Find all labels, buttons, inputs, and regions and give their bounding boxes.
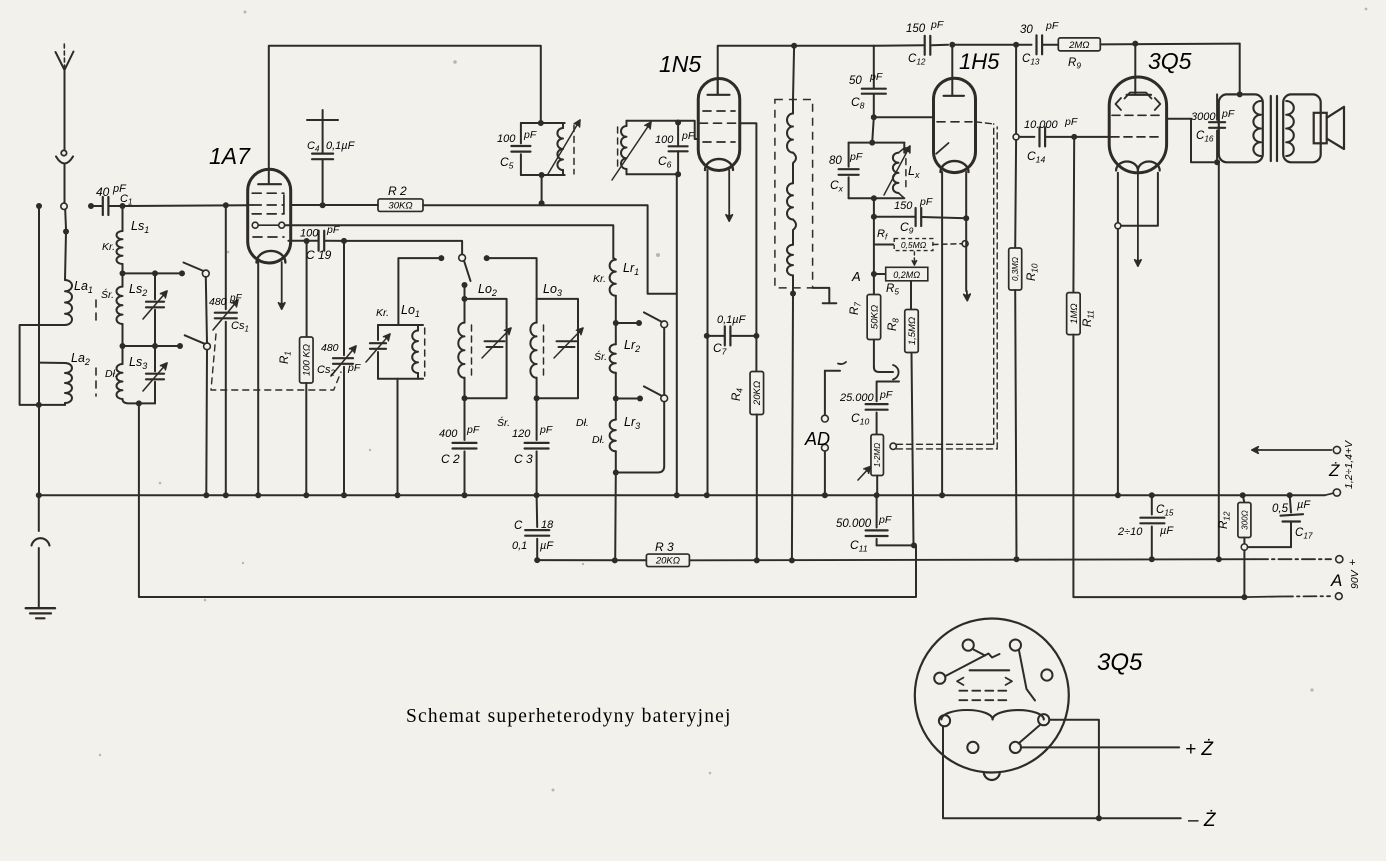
svg-text:Ls2: Ls2 [129,282,147,298]
svg-text:Dł.: Dł. [105,368,118,380]
potentiometer 1-2M [858,435,896,496]
svg-text:Rf: Rf [877,228,888,241]
3Q5 filament humps [1116,161,1160,170]
resistor Rf 0.5M [874,217,933,295]
AVC dashed pair [897,122,998,449]
svg-text:25.000: 25.000 [839,392,875,404]
1A7 grids [248,193,284,214]
svg-text:Lr1: Lr1 [623,261,639,277]
svg-text:3000: 3000 [1191,111,1216,123]
svg-text:Ż: Ż [1328,461,1340,480]
trimmer Cs2 480pF [317,241,361,495]
svg-text:90V: 90V [1349,569,1361,589]
svg-text:C9: C9 [900,220,914,236]
svg-text:R 2: R 2 [388,184,407,198]
3Q5 beam plates [1116,93,1161,111]
coil La2 [39,351,90,405]
IF transformer winding [787,46,796,297]
1H5 cathode leg [941,172,943,495]
trimmer Cs1 480pF [209,205,249,495]
capacitor C1 40pF [88,183,132,215]
svg-text:100: 100 [300,228,319,240]
svg-text:pF: pF [326,224,340,236]
svg-text:Lo1: Lo1 [401,303,420,319]
antenna switch [61,203,69,234]
wire La1 bottom bracket [20,325,65,405]
svg-text:R5: R5 [886,283,899,297]
node A [851,269,877,284]
antenna coupling connector [56,150,73,203]
wire antenna switch to La1 [65,232,66,281]
svg-text:2÷10: 2÷10 [1117,526,1143,538]
svg-text:pF: pF [849,151,863,163]
socket wire minus Z [943,720,1217,831]
svg-text:300Ω: 300Ω [1240,510,1249,529]
svg-text:Lo3: Lo3 [543,282,562,298]
wire R11 to bias line [1073,335,1244,597]
capacitor C2 400pF [439,398,480,495]
svg-text:R4: R4 [731,388,745,401]
Lr switch common [616,328,664,473]
svg-text:C5: C5 [500,155,514,171]
resistor R1 100K [279,241,313,495]
IF transformer shield box [775,100,813,288]
svg-text:20KΩ: 20KΩ [655,556,680,567]
svg-text:2MΩ: 2MΩ [1068,40,1089,51]
svg-text:Śr.: Śr. [594,350,607,363]
wave switch 2 [185,335,211,349]
node on earth branch [36,203,42,209]
svg-text:30: 30 [1020,24,1033,36]
1H5 diode plate [936,143,948,154]
svg-text:150: 150 [906,23,926,35]
coil Ls2 [101,273,147,346]
svg-text:pF: pF [869,71,883,83]
svg-text:1H5: 1H5 [959,49,1000,74]
Lr junction 2 [613,396,643,402]
svg-text:pF: pF [930,19,944,31]
resistor R10 0.3M [1009,140,1040,562]
wave switch 1 [184,263,210,277]
svg-text:Schemat superheterodyny batery: Schemat superheterodyny bateryjnej [406,706,732,727]
wire 1A7 plate to top rail [269,46,541,170]
bias line to terminal [1241,593,1342,600]
svg-text:20KΩ: 20KΩ [752,381,763,406]
svg-text:1,2÷1,4+V: 1,2÷1,4+V [1343,440,1355,489]
coil Ls1 [102,206,149,273]
svg-text:Lr3: Lr3 [624,415,640,431]
1N5 filament arrow [726,170,732,221]
svg-text:30KΩ: 30KΩ [388,201,412,212]
svg-text:100: 100 [497,133,516,145]
resistor R4 20K [731,336,764,564]
1A7 lower grid dash [253,236,284,238]
3Q5 left leg [1115,173,1121,495]
svg-text:pF: pF [539,424,553,436]
wire 1N5 screen down [739,123,756,336]
svg-text:Śr.: Śr. [101,288,114,301]
capacitor C13 30pF [1020,20,1059,67]
svg-text:pF: pF [229,293,243,304]
svg-text:C16: C16 [1196,130,1214,144]
svg-text:AD: AD [804,429,830,449]
wire 1A7 screen row to Lr1 [285,225,614,258]
svg-text:0,1: 0,1 [512,540,527,552]
Lr switch 1 [644,312,668,327]
tube 3Q5 [1109,48,1191,173]
node IF feed [791,43,797,49]
svg-text:Kr.: Kr. [376,307,389,319]
transformer core [1271,96,1277,161]
tube 1A7 [209,143,291,263]
tank Cx 80pF with Lx [829,117,920,219]
svg-text:10.000: 10.000 [1024,119,1059,131]
1A7 cathode leg [257,262,259,495]
socket internal structure [941,650,1043,744]
resistor R7 50K [849,295,881,340]
svg-text:C11: C11 [850,538,868,554]
spark gap [32,495,50,608]
capacitor C4 0.1uF [307,110,356,208]
transformer bottom node [1214,159,1222,562]
svg-text:C1: C1 [120,193,132,206]
output transformer secondary [1283,94,1321,162]
socket 3Q5 outline [915,619,1069,781]
speaker [1314,107,1344,149]
Lr junction 1 [613,320,642,326]
svg-text:C: C [514,520,523,532]
trimmer across Ls2 [143,273,167,346]
svg-text:3Q5: 3Q5 [1097,649,1143,676]
svg-text:R11: R11 [1082,310,1096,327]
svg-text:3Q5: 3Q5 [1148,48,1192,74]
1A7 filament arrow [279,262,285,309]
svg-text:R12: R12 [1218,511,1232,529]
svg-text:Ls3: Ls3 [129,355,147,371]
capacitor C16 3000pF [1191,94,1235,162]
svg-text:pF: pF [1221,108,1235,120]
svg-text:pF: pF [523,129,537,141]
terminal Z label [1328,440,1355,489]
svg-text:Cx: Cx [830,178,844,194]
bus terminal Z [1325,489,1341,496]
IF tank C5 coil [497,120,580,206]
socket wire plus Z [1021,739,1214,760]
capacitor C19 100pF [288,224,344,262]
capacitor C12 150pF [874,19,948,67]
svg-text:1N5: 1N5 [659,51,701,77]
svg-text:Lx: Lx [908,164,920,180]
resistor R5 0.2M [874,252,928,297]
svg-text:Kr.: Kr. [102,241,115,253]
svg-text:1-2MΩ: 1-2MΩ [873,443,882,467]
1N5 grids [700,111,740,142]
oscillator coil Lo3 [530,282,588,429]
wire C8 to 1H5 [874,116,934,118]
svg-text:pF: pF [466,424,480,436]
3Q5 grid dashes [1109,115,1163,137]
capacitor C10 25000pF [839,382,899,435]
antenna [56,44,74,150]
trimmer across Ls3 [139,346,167,403]
coil Lr2 [594,323,640,399]
svg-text:480: 480 [209,296,227,308]
svg-text:R7: R7 [849,302,863,315]
gang dashed link [211,334,341,390]
wire C13 down to C14 [1013,45,1019,140]
svg-text:50.000: 50.000 [836,518,872,530]
junction Cs2 top [341,238,347,244]
svg-text:100: 100 [655,134,674,146]
switch common wire [206,277,207,495]
svg-text:1,5MΩ: 1,5MΩ [907,317,918,345]
capacitor C18 0.1uF [512,495,554,563]
svg-text:pF: pF [919,196,933,208]
wire C6 to 1N5 grid [678,121,699,139]
AD input jack [804,362,846,495]
wire R7 to pickup jack [874,340,899,380]
svg-text:0,1µF: 0,1µF [326,140,356,152]
svg-text:pF: pF [879,389,893,401]
capacitor C15 2-10uF [1117,495,1174,562]
junction row 1 [120,270,186,276]
svg-text:C10: C10 [851,411,869,427]
wire R2 to C6 branch [423,205,677,294]
svg-text:µF: µF [540,540,554,552]
svg-text:0,2MΩ: 0,2MΩ [893,270,920,280]
3Q5 right leg [1121,173,1158,226]
coil La1 [65,279,93,325]
svg-text:18: 18 [541,519,554,531]
svg-text:+ Ż: + Ż [1185,739,1214,760]
svg-text:pF: pF [878,514,892,526]
svg-text:C6: C6 [658,154,672,170]
svg-text:Dł.: Dł. [576,417,589,429]
capacitor C9 150pF [874,196,969,236]
wire osc grid to wave switch [344,241,462,254]
1H5 grid dash [937,121,972,123]
3Q5 center leg arrow [1135,173,1141,266]
svg-text:R9: R9 [1068,57,1081,71]
svg-text:0,1µF: 0,1µF [717,314,747,326]
svg-text:µF: µF [1160,525,1174,537]
svg-text:0,5MΩ: 0,5MΩ [901,240,927,250]
svg-text:C 19: C 19 [306,248,332,262]
svg-text:Śr.: Śr. [497,416,510,429]
svg-text:pF: pF [681,130,695,142]
wire C6 down to bus [676,174,678,495]
svg-text:1A7: 1A7 [209,143,251,169]
svg-text:C15: C15 [1156,504,1174,518]
oscillator coil Lo2 [458,282,511,429]
core dash La [95,300,97,396]
junction R1 top [304,238,310,244]
svg-text:R10: R10 [1026,263,1040,281]
resistor R11 1M [1067,137,1096,335]
svg-text:A: A [851,269,861,284]
dashed Rf to diode line [933,241,968,247]
capacitor C3 120pF [512,398,553,495]
terminal A label [1330,557,1361,590]
IF shield ground stub [813,288,837,303]
3Q5 plate wire [1167,119,1214,163]
svg-text:R8: R8 [887,318,901,331]
svg-text:C12: C12 [908,53,926,67]
1A7 bottom dome [257,251,286,263]
svg-text:Cs2: Cs2 [317,364,335,377]
coil Ls3 [105,346,147,403]
1N5 bottom dome [705,159,733,170]
svg-text:C14: C14 [1027,149,1045,165]
capacitor C14 10000pF [1019,116,1109,165]
svg-text:Lr2: Lr2 [624,338,640,354]
svg-text:µF: µF [1297,499,1311,511]
1H5 top node [944,42,964,96]
svg-text:80: 80 [829,155,842,167]
junction C13 [952,42,1031,48]
svg-text:480: 480 [321,342,339,354]
3Q5 screen lead [1127,41,1151,95]
1A7 grid circles row [252,222,285,228]
osc coupling coil and C6 [612,120,695,181]
1N5 cathode leg [707,170,709,495]
svg-text:40: 40 [96,185,110,199]
svg-text:0,5: 0,5 [1272,503,1289,515]
svg-text:C8: C8 [851,95,865,111]
svg-text:Cs1: Cs1 [231,320,249,333]
svg-text:La2: La2 [71,351,90,367]
svg-text:– Ż: – Ż [1187,810,1217,831]
ground bus [36,492,1325,498]
svg-text:C4: C4 [307,140,320,153]
capacitor C17 0.5uF [1248,495,1313,547]
title text [406,706,732,727]
1H5 bottom dome [941,161,969,172]
svg-text:C17: C17 [1295,527,1313,541]
svg-text:Dł.: Dł. [592,434,605,446]
resistor R9 2M [1058,38,1239,71]
svg-text:400: 400 [439,428,458,440]
ground [26,608,55,618]
output transformer primary [1219,94,1263,162]
tube 1H5 [934,49,1001,173]
svg-text:150: 150 [894,200,913,212]
svg-text:La1: La1 [74,279,93,295]
1N5 plate lead [708,79,730,95]
capacitor C7 0.1uF [704,314,760,357]
svg-text:Kr.: Kr. [593,273,606,285]
Lr bottom junction [612,470,619,564]
coil Lr1 [593,258,639,323]
svg-text:Lo2: Lo2 [478,282,497,298]
capacitor C11 50000pF [836,495,917,553]
junction row 2 [120,343,184,349]
socket label [1097,649,1143,676]
svg-text:1MΩ: 1MΩ [1069,303,1080,323]
supply line A [690,556,1343,563]
resistor R2 30K [291,184,423,212]
tube 1N5 [659,51,740,171]
wire earth branch vertical [36,206,42,495]
svg-text:C 3: C 3 [514,452,533,466]
wire top rail to transformer [1237,44,1243,98]
svg-text:pF: pF [1064,116,1078,128]
1H5 filament branch [964,172,970,301]
junction Ls3 bottom [136,400,142,406]
wire to Lo3 [487,258,537,299]
svg-text:50: 50 [849,75,862,87]
capacitor C8 50pF [849,46,886,121]
resistor R12 300ohm [1218,495,1251,597]
svg-text:pF: pF [347,362,361,374]
svg-text:A: A [1330,571,1342,590]
wire IF bottom down [789,294,795,564]
Lr switch 2 [644,386,668,401]
osc band switch [459,254,490,288]
oscillator coil Lo1 [366,255,444,495]
resistor R3 20K [537,540,689,567]
svg-text:pF: pF [1045,20,1059,32]
socket pins [934,640,1052,754]
wire C1 to 1A7 grid [123,202,248,208]
wire 1N5 plate to top rail [718,46,874,95]
svg-text:+: + [1349,557,1356,569]
svg-text:50KΩ: 50KΩ [869,305,880,329]
svg-text:R1: R1 [279,351,293,364]
svg-text:Ls1: Ls1 [131,219,149,235]
svg-text:C 2: C 2 [441,452,460,466]
svg-text:R 3: R 3 [655,540,674,554]
svg-text:0,3MΩ: 0,3MΩ [1011,257,1020,281]
wire Ls3 bottom to bias line [139,403,916,597]
svg-text:120: 120 [512,428,531,440]
resistor R8 1.5M [887,281,918,545]
coil Lr3 [592,399,640,473]
svg-text:100 KΩ: 100 KΩ [302,344,313,376]
1A7 plate lead [258,169,281,184]
terminal Z filament arrow [1252,446,1341,453]
